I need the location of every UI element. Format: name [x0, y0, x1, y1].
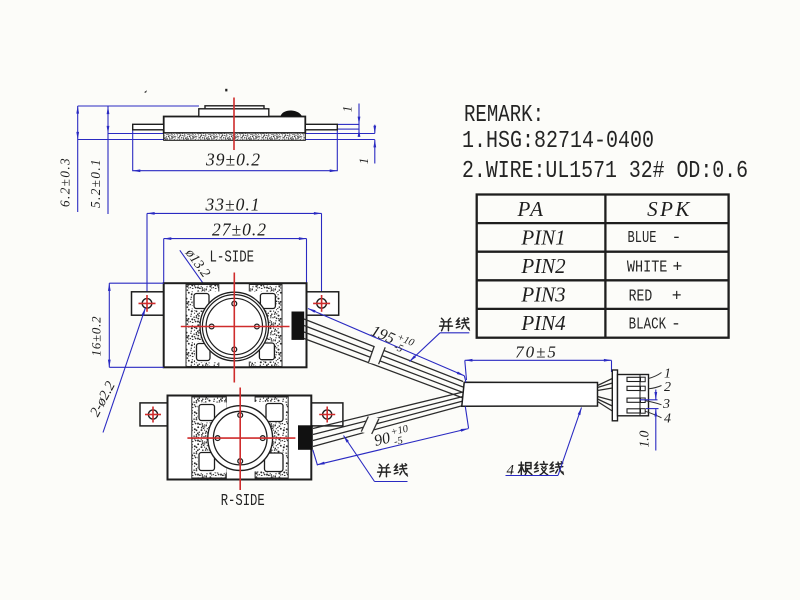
- cone holes L-SIDE: [209, 301, 259, 352]
- cutout R right-bottom: [253, 453, 286, 472]
- top wire break: [368, 345, 385, 365]
- left ear L-SIDE: [132, 292, 164, 315]
- svg-text:PIN4: PIN4: [520, 311, 566, 335]
- connector housing: [618, 375, 649, 416]
- right ear R-SIDE: [311, 403, 343, 426]
- extension line dome-top: [78, 105, 199, 107]
- svg-text:2.WIRE:UL1571 32# OD:0.6: 2.WIRE:UL1571 32# OD:0.6: [462, 158, 748, 185]
- svg-text:RED: RED: [629, 286, 653, 305]
- svg-text:4: 4: [664, 412, 671, 427]
- svg-text:R-SIDE: R-SIDE: [221, 492, 265, 511]
- svg-text:PIN2: PIN2: [520, 254, 566, 278]
- bottom wire bundle: [313, 392, 463, 447]
- dimension 27±0.2: [164, 220, 307, 283]
- svg-text:BLUE: BLUE: [628, 228, 657, 247]
- svg-text:39±0.2: 39±0.2: [205, 150, 261, 170]
- red centerline top view: [233, 98, 235, 151]
- svg-text:1: 1: [341, 106, 355, 112]
- svg-text:3: 3: [662, 397, 670, 412]
- left stipple block: [186, 285, 219, 367]
- terminal block R-SIDE: [298, 425, 313, 450]
- dimension 195 +10/-5: [308, 309, 466, 383]
- cone holes R-SIDE: [215, 413, 265, 464]
- speck marks: [144, 90, 147, 93]
- pin slot 2: [627, 386, 645, 391]
- right stipple block R: [255, 397, 288, 478]
- svg-text:1: 1: [357, 158, 371, 164]
- pin leader 1: [649, 373, 662, 379]
- dimension 90 +10/-5: [313, 407, 469, 466]
- red crosshair R-SIDE: [187, 388, 295, 491]
- right mounting tab (side): [305, 124, 337, 130]
- ear hole right R (target): [319, 407, 335, 423]
- wire stub upper (blue): [337, 124, 359, 129]
- svg-text:1.0: 1.0: [637, 430, 652, 447]
- left mounting tab (side): [133, 124, 164, 130]
- pin slot 4: [627, 409, 645, 414]
- svg-text:WHITE: WHITE: [627, 258, 668, 277]
- dimension 70±5: [465, 343, 612, 381]
- svg-text:33±0.1: 33±0.1: [205, 195, 261, 215]
- sleeve tube: [462, 382, 598, 406]
- svg-text:4: 4: [507, 463, 515, 479]
- solder blob: [281, 110, 302, 116]
- cutout R left-bottom: [198, 451, 227, 473]
- housing inner divider: [639, 375, 641, 416]
- dimension 2-Φ2.2: [87, 308, 145, 433]
- dimension 1.0 pitch: [637, 390, 659, 451]
- left stipple block R: [192, 397, 227, 478]
- right ear L-SIDE: [307, 292, 339, 315]
- frame body R-SIDE: [168, 396, 312, 480]
- pin leader 4: [645, 411, 661, 418]
- svg-text:PA: PA: [517, 197, 546, 221]
- terminal block L-SIDE: [292, 312, 305, 340]
- svg-text:70±5: 70±5: [515, 343, 558, 362]
- red crosshair L-SIDE: [181, 273, 290, 383]
- dimension 1 (gasket thickness): [357, 125, 375, 164]
- svg-text:SPK: SPK: [647, 197, 692, 221]
- left ear R-SIDE: [140, 403, 168, 426]
- top wire bundle: [304, 319, 463, 398]
- pin slot 3: [627, 398, 645, 403]
- svg-text:PIN1: PIN1: [520, 225, 565, 249]
- cutout R right-top: [253, 402, 286, 423]
- frame body L-SIDE: [164, 283, 307, 367]
- right stipple block: [249, 285, 282, 367]
- dimension 1 (tab thickness): [341, 104, 360, 134]
- svg-text:5.2±0.1: 5.2±0.1: [88, 158, 103, 208]
- 并线 label top: [410, 318, 470, 362]
- 4根绞线 label: [506, 408, 582, 479]
- speaker frame body (side): [164, 117, 306, 134]
- dimension 5.2±0.1: [88, 107, 108, 215]
- pin leader 3: [645, 401, 661, 405]
- gasket strip (stippled): [164, 133, 306, 140]
- magnet dome lower step: [199, 109, 269, 117]
- 并线 label bottom: [344, 436, 408, 482]
- cutout left-bottom: [195, 342, 220, 363]
- svg-text:1.HSG:82714-0400: 1.HSG:82714-0400: [462, 128, 654, 155]
- ear hole left (target): [139, 295, 156, 312]
- connector base plate: [612, 370, 617, 421]
- extension line body-bottom: [108, 133, 375, 135]
- dimension 39±0.2: [133, 131, 338, 172]
- ear hole right (target): [313, 295, 330, 312]
- extension line gasket-bottom: [78, 139, 375, 141]
- svg-text:6.2±0.3: 6.2±0.3: [58, 157, 73, 207]
- svg-text:-: -: [672, 228, 682, 247]
- dimension 16±0.2: [89, 283, 163, 367]
- speaker cone rings L-SIDE: [200, 292, 269, 361]
- cutout right-bottom: [248, 342, 275, 362]
- svg-text:BLACK: BLACK: [629, 314, 667, 333]
- ear hole left R (target): [145, 407, 161, 423]
- svg-text:-: -: [671, 314, 681, 333]
- dimension 6.2±0.3: [58, 106, 78, 212]
- svg-text:27±0.2: 27±0.2: [212, 220, 267, 240]
- svg-text:+: +: [673, 258, 683, 277]
- pin slot 1: [627, 377, 645, 382]
- cutout right-top: [248, 292, 276, 311]
- svg-text:L-SIDE: L-SIDE: [210, 249, 255, 268]
- leader Φ13.2: [180, 250, 258, 360]
- bottom wire break: [361, 416, 379, 435]
- connector fan wires: [598, 379, 613, 412]
- svg-text:2: 2: [664, 380, 671, 395]
- cutout R left-top: [198, 403, 227, 423]
- svg-text:PIN3: PIN3: [520, 283, 565, 307]
- svg-text:REMARK:: REMARK:: [464, 102, 544, 129]
- svg-text:16±0.2: 16±0.2: [89, 316, 103, 357]
- cutout left-top: [193, 292, 221, 311]
- magnet dome upper step: [205, 106, 264, 109]
- pin leader 2: [649, 386, 662, 389]
- svg-text:+: +: [672, 286, 682, 305]
- speaker rings R-SIDE: [208, 406, 273, 471]
- dimension 33±0.1: [147, 195, 322, 292]
